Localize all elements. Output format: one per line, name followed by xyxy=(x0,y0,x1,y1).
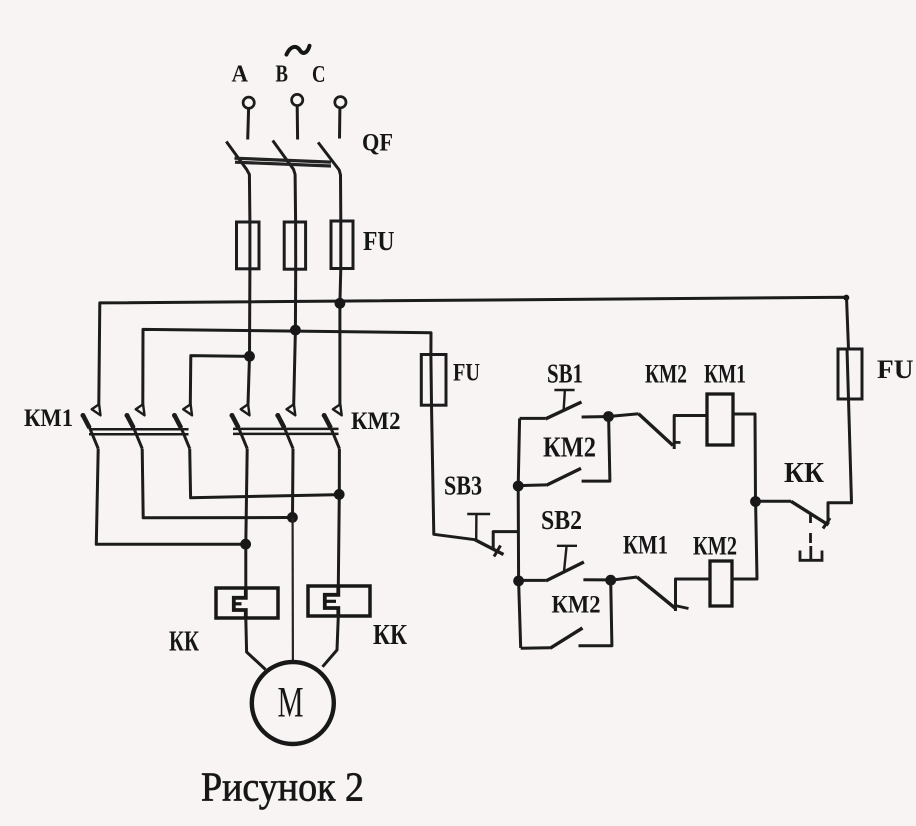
control fuse FU right xyxy=(838,349,862,399)
fuse FU phase B xyxy=(284,222,305,269)
holding contact KM2 (parallel SB1) xyxy=(518,483,546,487)
wire B through fuse xyxy=(294,222,297,270)
control rail left xyxy=(518,418,521,648)
stop button SB3 blade xyxy=(475,540,504,555)
contactor KM1 contact 1 blade xyxy=(81,413,86,418)
motor M circle xyxy=(252,662,334,744)
svg-text:FU: FU xyxy=(453,360,480,387)
start button SB1 right lead xyxy=(582,415,604,418)
wire coil KM2 to right rail xyxy=(732,502,757,579)
thermal contact KK reset dashes xyxy=(809,514,812,559)
thermal relay KK heater 1 box xyxy=(216,588,278,618)
node V junction xyxy=(287,512,298,523)
svg-text:М: М xyxy=(278,680,304,727)
wire phase C down to KM2 contact xyxy=(338,269,342,405)
svg-text:КК: КК xyxy=(373,620,408,651)
wire stub B xyxy=(296,106,299,140)
bus wire second (B phase to KM1 and control fuse) xyxy=(143,329,431,404)
node rail-hold1 xyxy=(513,481,524,492)
svg-text:C: C xyxy=(312,62,326,88)
thermal contact KK tick xyxy=(823,518,830,529)
wire KM1-1 bottom to motor lead U xyxy=(96,449,240,545)
start button SB2 left lead xyxy=(519,579,546,582)
contactor KM2 contact 6 blade xyxy=(322,413,327,418)
svg-text:A: A xyxy=(232,62,249,88)
thermal relay KK heater 2 element xyxy=(325,586,339,616)
svg-text:КМ2: КМ2 xyxy=(645,360,687,389)
terminal C xyxy=(335,97,346,108)
svg-text:КК: КК xyxy=(784,458,825,489)
svg-text:КМ1: КМ1 xyxy=(24,405,73,432)
contactor KM2 contact 5 blade xyxy=(275,413,280,418)
wire control fuse to SB3 xyxy=(432,405,476,540)
start button SB2 right lead xyxy=(583,578,606,581)
wire heater1 to motor xyxy=(246,618,266,670)
start button SB1 plunger xyxy=(554,389,574,391)
wire KM2-4 bottom / motor lead U xyxy=(246,449,247,588)
stop button SB3 plunger xyxy=(467,513,490,515)
wire stub A xyxy=(246,109,250,140)
thermal contact KK reset bracket xyxy=(800,551,822,561)
start button SB2 plunger xyxy=(557,545,577,547)
contactor KM2 linkage bar xyxy=(233,429,339,434)
thermal contact KK lead xyxy=(756,500,792,503)
breaker QF blade A xyxy=(226,142,250,222)
interlock contact KM2 NC (top row) xyxy=(609,414,639,417)
wire heater2 to motor xyxy=(323,616,339,667)
wire KM2-5 bottom / motor lead V xyxy=(291,449,295,518)
contactor KM1 contact 2 fixed tip xyxy=(136,404,145,415)
wire KM1-2 bottom to motor lead V xyxy=(142,449,287,518)
contactor KM1 contact 1 fixed tip xyxy=(92,404,101,415)
coil KM1 xyxy=(707,394,733,445)
wire phase A down to KM2 contact xyxy=(248,269,250,405)
contactor KM1 contact 2 blade xyxy=(125,413,130,418)
contactor KM1 contact 3 blade xyxy=(172,413,177,418)
wire stub C xyxy=(338,108,341,138)
wire A through fuse xyxy=(248,222,251,270)
svg-text:КК: КК xyxy=(169,627,200,658)
node B-bus junction xyxy=(290,325,301,336)
thermal relay KK heater 2 box xyxy=(308,586,370,616)
node right rail xyxy=(750,496,761,507)
svg-text:QF: QF xyxy=(362,130,393,157)
breaker QF blade B xyxy=(273,141,296,222)
wire KM2-6 bottom / motor lead W xyxy=(338,449,339,587)
wire phase B down to KM2 contact xyxy=(294,269,296,405)
node 2 xyxy=(605,575,616,586)
coil KM2 xyxy=(710,561,732,606)
svg-text:Рисунок 2: Рисунок 2 xyxy=(201,764,364,810)
node U junction xyxy=(240,539,251,550)
interlock contact KM1 NC (bottom row) xyxy=(611,577,637,580)
bus wire top (C phase to KM1 and control) xyxy=(99,297,849,404)
wire motor lead V down xyxy=(292,517,294,663)
thermal contact KK right terminal xyxy=(828,399,852,524)
stop button SB3 right lead xyxy=(493,532,519,548)
breaker QF blade C xyxy=(318,142,341,221)
svg-text:SB1: SB1 xyxy=(547,359,583,389)
svg-text:SB2: SB2 xyxy=(541,505,582,535)
svg-text:КМ2: КМ2 xyxy=(543,432,596,464)
node W junction xyxy=(334,489,345,500)
holding contact KM2 (parallel SB2) xyxy=(521,646,550,650)
node rail-SB2 xyxy=(513,576,524,587)
svg-text:КМ2: КМ2 xyxy=(351,408,401,435)
node 1 xyxy=(603,411,614,422)
svg-text:КМ1: КМ1 xyxy=(704,360,746,389)
wire C through fuse xyxy=(339,221,342,269)
contactor KM2 contact 5 fixed tip xyxy=(287,404,296,415)
svg-text:КМ2: КМ2 xyxy=(552,592,601,619)
bus wire third (A phase to KM1) xyxy=(190,356,249,405)
thermal relay KK heater 1 element xyxy=(234,588,246,618)
contactor KM2 contact 6 fixed tip xyxy=(333,404,342,415)
start button SB1 blade xyxy=(545,402,581,419)
svg-text:SB3: SB3 xyxy=(444,471,482,501)
contactor KM1 linkage bar xyxy=(89,429,189,434)
stop button SB3 tick xyxy=(494,546,501,557)
start button SB2 blade xyxy=(546,562,584,581)
terminal B xyxy=(292,94,303,105)
fuse FU phase C xyxy=(331,221,353,269)
terminal A xyxy=(243,97,254,108)
contactor KM2 contact 4 fixed tip xyxy=(241,404,250,415)
contactor KM2 contact 4 blade xyxy=(230,413,235,418)
corner blob right xyxy=(843,295,849,301)
wire KM1-3 bottom to motor lead W xyxy=(190,449,335,498)
thermal contact KK blade xyxy=(791,501,829,525)
svg-text:FU: FU xyxy=(877,355,914,384)
svg-text:B: B xyxy=(276,62,289,88)
breaker QF linkage bar xyxy=(235,158,332,166)
svg-text:КМ1: КМ1 xyxy=(623,531,668,560)
fuse FU phase A xyxy=(237,222,260,269)
ac source symbol ~ xyxy=(287,46,310,55)
node C-bus junction xyxy=(335,298,346,309)
svg-text:КМ2: КМ2 xyxy=(693,532,737,561)
start button SB1 left lead xyxy=(520,417,546,420)
wire coil KM1 to right rail xyxy=(733,414,756,502)
contactor KM1 contact 3 fixed tip xyxy=(183,404,192,415)
node A-bus junction xyxy=(244,351,255,362)
svg-text:FU: FU xyxy=(363,226,395,256)
control fuse FU left xyxy=(421,355,446,406)
